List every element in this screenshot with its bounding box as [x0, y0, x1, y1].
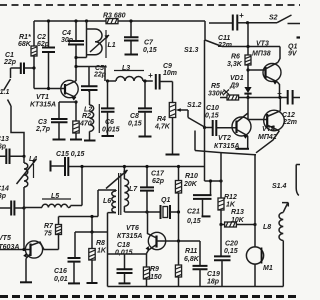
- svg-text:2,7p: 2,7p: [35, 126, 51, 133]
- node bus-L7: [123, 165, 126, 168]
- wire long S1.2 pole column: [204, 40, 206, 181]
- svg-text:C20: C20: [225, 241, 238, 248]
- node R7wire-92: [90, 215, 93, 218]
- capacitor C4: [61, 21, 84, 81]
- svg-text:1K: 1K: [226, 202, 236, 209]
- svg-text:R6: R6: [231, 54, 240, 61]
- svg-text:0,15: 0,15: [205, 113, 219, 120]
- capacitor C3: [35, 102, 76, 140]
- svg-text:R7: R7: [44, 223, 54, 230]
- capacitor C18: [108, 242, 147, 283]
- svg-text:VT6: VT6: [126, 225, 139, 232]
- resistor R13: [221, 209, 255, 227]
- wire L4 column to VT5 base: [0, 208, 31, 250]
- inductor L2: [84, 90, 99, 141]
- node bus-L5: [80, 165, 83, 168]
- node C11 plus: [246, 21, 249, 24]
- svg-text:0,015: 0,015: [102, 127, 120, 134]
- potentiometer R4: [154, 82, 188, 155]
- svg-text:VT5: VT5: [0, 235, 11, 242]
- node R13-M1: [253, 223, 256, 226]
- switch S2: [248, 15, 301, 24]
- svg-text:62p: 62p: [152, 178, 165, 185]
- svg-text:L1: L1: [108, 42, 116, 49]
- inductor L5: [24, 193, 71, 208]
- svg-text:C1: C1: [5, 52, 14, 59]
- resistor R1: [18, 21, 37, 89]
- svg-text:22m: 22m: [217, 42, 232, 49]
- inductor L3: [114, 65, 153, 81]
- node rail-C2: [47, 19, 50, 22]
- svg-text:C9: C9: [163, 63, 172, 70]
- node rail-C7: [129, 19, 132, 22]
- svg-text:C8: C8: [130, 113, 139, 120]
- svg-text:КТ603А: КТ603А: [0, 244, 19, 251]
- capacitor C14: [0, 186, 24, 216]
- node diode cathode: [246, 96, 249, 99]
- crystal Q1: [161, 197, 179, 219]
- wire VT6 base corner: [199, 240, 201, 242]
- capacitor C15: [51, 151, 85, 176]
- svg-text:C19: C19: [207, 271, 220, 278]
- svg-text:R9: R9: [150, 266, 159, 273]
- wire VT4 emitter bus: [195, 151, 256, 155]
- svg-text:S2: S2: [269, 15, 278, 22]
- node VT3 base: [246, 68, 249, 71]
- capacitor C6: [101, 81, 120, 136]
- svg-text:R8: R8: [96, 240, 105, 247]
- svg-text:S1.1: S1.1: [0, 89, 10, 96]
- svg-text:+: +: [277, 89, 282, 98]
- border dashed top: [0, 4, 300, 6]
- capacitor C1: [3, 52, 34, 74]
- svg-text:L8: L8: [263, 224, 271, 231]
- node Q1-R10: [177, 210, 180, 213]
- svg-text:КТ315А: КТ315А: [117, 233, 142, 240]
- svg-text:0,15: 0,15: [187, 218, 201, 225]
- svg-text:R13: R13: [231, 209, 244, 216]
- svg-text:L7: L7: [129, 186, 138, 193]
- svg-text:C18: C18: [117, 242, 130, 249]
- svg-text:Д9: Д9: [229, 83, 239, 90]
- node base VT5: [22, 248, 25, 251]
- svg-text:+: +: [148, 71, 153, 80]
- svg-text:R12: R12: [224, 194, 237, 201]
- resistor R3: [103, 13, 126, 24]
- transistor VT3: [248, 41, 281, 98]
- svg-text:22p: 22p: [3, 59, 17, 66]
- svg-text:C16: C16: [54, 268, 67, 275]
- svg-text:33p: 33p: [0, 193, 7, 200]
- capacitor C17: [140, 165, 165, 212]
- transformer L6 L7: [103, 190, 116, 287]
- svg-text:0,15: 0,15: [128, 121, 142, 128]
- svg-text:L4: L4: [29, 156, 37, 163]
- inductor L8: [263, 212, 283, 287]
- resistor R8: [87, 232, 107, 283]
- capacitor C7: [124, 21, 157, 55]
- svg-text:МП42: МП42: [258, 134, 277, 141]
- svg-text:VT4: VT4: [262, 126, 275, 133]
- svg-text:VT2: VT2: [218, 135, 231, 142]
- svg-text:68K: 68K: [18, 41, 32, 48]
- wire base VT1: [34, 88, 65, 90]
- wire VT2 collector to VT4 base: [237, 98, 267, 123]
- svg-text:75: 75: [44, 231, 52, 238]
- node C13-L4: [22, 155, 25, 158]
- resistor R5: [208, 83, 239, 100]
- svg-text:C14: C14: [0, 186, 9, 193]
- capacitor C16: [54, 232, 81, 283]
- svg-text:4,7K: 4,7K: [154, 124, 171, 131]
- node VT1 emitter: [74, 100, 77, 103]
- svg-text:62p: 62p: [37, 41, 50, 48]
- svg-text:6,8K: 6,8K: [184, 256, 200, 263]
- svg-text:30p: 30p: [61, 37, 74, 44]
- svg-text:L5: L5: [51, 193, 59, 200]
- capacitor C5: [81, 65, 107, 92]
- svg-text:3,3K: 3,3K: [227, 61, 243, 68]
- wire column to R12: [205, 180, 222, 182]
- wire L6 bottom node: [75, 217, 108, 233]
- diode VD1: [229, 75, 252, 98]
- svg-text:C11: C11: [218, 35, 230, 42]
- wire bottom rail: [108, 286, 284, 288]
- capacitor C2: [37, 21, 55, 89]
- svg-text:R1*: R1*: [19, 34, 31, 41]
- inductor L4: [17, 156, 38, 208]
- svg-text:330K: 330K: [208, 91, 226, 98]
- svg-text:150: 150: [150, 274, 162, 281]
- svg-text:1K: 1K: [97, 248, 107, 255]
- svg-text:VT1: VT1: [36, 94, 49, 101]
- svg-text:M1: M1: [263, 265, 273, 272]
- resistor R2: [70, 102, 92, 140]
- resistor R11: [175, 241, 199, 287]
- wire S1.3 to VT3: [222, 47, 280, 63]
- resistor R7: [44, 217, 62, 250]
- node column-C10: [204, 126, 206, 128]
- wire osc bus: [68, 166, 205, 168]
- svg-text:0,01: 0,01: [54, 276, 68, 283]
- svg-text:10m: 10m: [163, 70, 177, 77]
- transistor VT6: [117, 212, 200, 267]
- svg-text:R2: R2: [82, 113, 91, 120]
- svg-text:10K: 10K: [231, 217, 245, 224]
- resistor R12: [218, 153, 237, 225]
- svg-text:KT315A: KT315A: [30, 102, 56, 109]
- svg-text:0,15: 0,15: [143, 47, 157, 54]
- switch S1.2: [187, 102, 205, 151]
- svg-text:L3: L3: [122, 65, 130, 72]
- node VT6 base-R10: [177, 239, 180, 242]
- svg-text:C6: C6: [105, 119, 114, 126]
- svg-text:R4: R4: [157, 116, 166, 123]
- earphone M1: [246, 247, 272, 287]
- svg-text:C17: C17: [151, 171, 165, 178]
- svg-text:C15 0,15: C15 0,15: [56, 151, 85, 158]
- switch S1.4: [272, 165, 300, 213]
- transformer core: [119, 173, 121, 215]
- transistor VT4: [256, 98, 284, 153]
- node R12 wire: [219, 179, 222, 182]
- capacitor C21: [187, 181, 212, 225]
- node C1-R1: [32, 66, 35, 69]
- resistor R10: [175, 165, 198, 241]
- node L4-C14: [22, 206, 25, 209]
- capacitor C13: [0, 136, 24, 164]
- transistor VT1: [30, 80, 78, 108]
- transistor VT2: [214, 117, 251, 150]
- capacitor C8: [128, 79, 152, 136]
- resistor R6: [227, 23, 251, 87]
- wire IF line: [108, 80, 117, 82]
- svg-text:Q1: Q1: [288, 44, 297, 51]
- svg-text:R3 680: R3 680: [103, 13, 126, 20]
- node rail-C4: [74, 19, 77, 22]
- resistor R9: [143, 266, 161, 287]
- svg-text:0,15: 0,15: [224, 248, 238, 255]
- svg-text:L6: L6: [103, 198, 111, 205]
- svg-text:R5: R5: [211, 83, 220, 90]
- wire tank bottom to C5 branch: [74, 65, 105, 81]
- capacitor C19: [193, 241, 220, 287]
- node base VT1: [47, 87, 50, 90]
- svg-text:C10: C10: [206, 105, 219, 112]
- border dashed bottom: [0, 295, 300, 298]
- capacitor C12: [277, 89, 300, 126]
- svg-text:+: +: [239, 11, 244, 20]
- svg-text:МП38: МП38: [252, 51, 271, 58]
- svg-text:56p: 56p: [0, 144, 7, 151]
- inductor L7: [106, 167, 138, 213]
- wire osc node: [124, 211, 159, 213]
- capacitor C11: [209, 11, 248, 49]
- svg-text:9V: 9V: [288, 51, 298, 58]
- svg-text:Q1: Q1: [161, 197, 170, 204]
- svg-text:C13: C13: [0, 136, 9, 143]
- svg-text:22p: 22p: [93, 72, 107, 79]
- inductor L1: [87, 21, 116, 58]
- svg-text:КТ315А: КТ315А: [214, 143, 239, 150]
- svg-text:VT3: VT3: [256, 41, 269, 48]
- svg-text:C7: C7: [144, 40, 154, 47]
- svg-text:18p: 18p: [207, 279, 220, 286]
- node rail-L1: [85, 19, 88, 22]
- svg-text:C21: C21: [187, 209, 200, 216]
- svg-text:S1.3: S1.3: [184, 47, 199, 54]
- wire M1 feed: [254, 155, 256, 247]
- wire L1 bottom to collector line: [74, 56, 86, 59]
- node R12-R13: [219, 223, 222, 226]
- wire top supply rail: [34, 20, 205, 22]
- svg-text:0,015: 0,015: [115, 250, 133, 257]
- wire R7 top to L6 top: [59, 190, 117, 217]
- svg-text:VD1: VD1: [230, 75, 244, 82]
- node C21 top: [209, 179, 212, 182]
- svg-text:R10: R10: [185, 173, 198, 180]
- capacitor C20: [214, 225, 238, 287]
- capacitor C10: [203, 105, 237, 136]
- svg-text:R11: R11: [185, 248, 197, 255]
- svg-text:S1.2: S1.2: [187, 102, 202, 109]
- terminal X: [224, 90, 230, 95]
- svg-text:470: 470: [79, 121, 92, 128]
- switch S1.1: [0, 68, 24, 156]
- battery G1: [288, 38, 300, 58]
- svg-text:S1.4: S1.4: [272, 183, 287, 190]
- capacitor C9: [148, 63, 177, 90]
- svg-text:20K: 20K: [183, 181, 198, 188]
- node L6-R8: [90, 230, 93, 233]
- node wire-C17: [145, 210, 148, 213]
- node VT3 emitter junction: [278, 96, 281, 99]
- svg-text:C3: C3: [38, 119, 47, 126]
- wire L5 right to osc bus: [71, 167, 83, 206]
- node R6 top: [246, 45, 249, 48]
- transistor VT5: [0, 235, 59, 282]
- wire R5 rail: [220, 97, 287, 99]
- svg-text:C4: C4: [62, 30, 71, 37]
- svg-text:C2: C2: [37, 34, 46, 41]
- switch S1.3: [184, 21, 222, 54]
- node C6-L3: [106, 79, 109, 82]
